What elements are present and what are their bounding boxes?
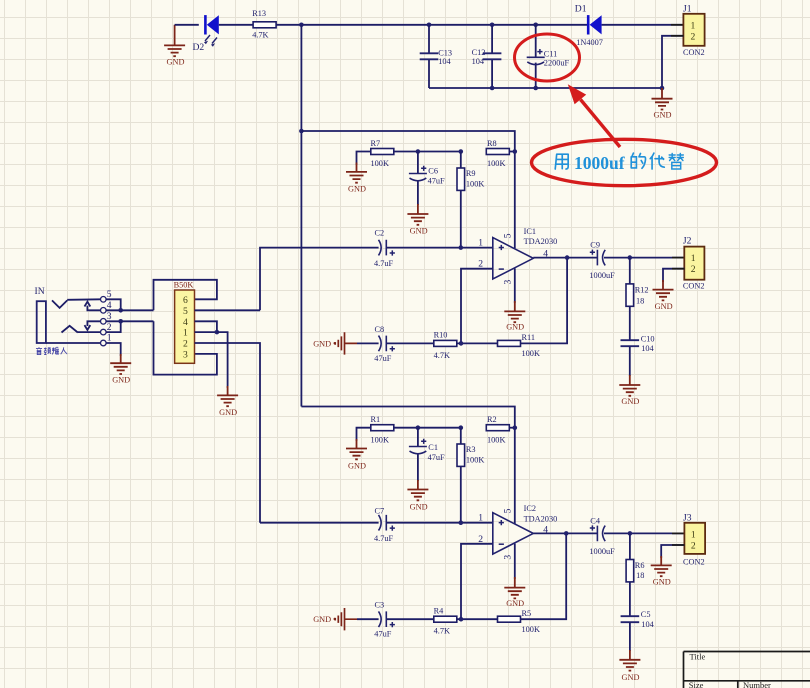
svg-text:C7: C7 xyxy=(375,507,385,516)
svg-text:2: 2 xyxy=(691,31,696,42)
ground GND (J3) xyxy=(651,556,672,587)
ground GND (below C1) xyxy=(407,480,428,512)
ground GND (left of R7) xyxy=(346,152,370,194)
resistor R4 4.7K xyxy=(434,607,457,636)
svg-text:GND: GND xyxy=(219,408,237,417)
capacitor C9 1000uF xyxy=(589,241,615,280)
svg-text:100K: 100K xyxy=(371,435,389,444)
node top rail xyxy=(301,24,588,26)
resistor R12 18 (vertical) xyxy=(626,258,649,307)
capacitor C2 4.7uF xyxy=(374,229,395,268)
wire jack pin3-pin2 tie xyxy=(106,321,121,332)
wire main bus vertical xyxy=(300,25,302,407)
svg-text:GND: GND xyxy=(410,227,428,236)
wire pot wiper up to C2 row xyxy=(260,248,379,311)
wire jack sleeve to ground xyxy=(106,343,121,356)
ground GND (C10) xyxy=(619,375,640,406)
svg-text:1N4007: 1N4007 xyxy=(576,38,603,47)
wire pot pin3 loop xyxy=(154,321,217,374)
svg-text:R6: R6 xyxy=(635,561,645,570)
wire R13 to junction xyxy=(276,24,301,26)
wire R10 to node xyxy=(457,342,499,344)
red ellipse annotation callout xyxy=(532,139,717,185)
svg-text:5: 5 xyxy=(503,233,514,238)
wire pot pin2 to C7 xyxy=(195,343,260,523)
bottom rail wire xyxy=(429,87,662,89)
wire GND to D2 xyxy=(175,24,199,26)
svg-text:CON2: CON2 xyxy=(683,557,705,566)
wire bus to R7 row xyxy=(301,131,514,248)
svg-text:3: 3 xyxy=(503,280,514,285)
svg-text:TDA2030: TDA2030 xyxy=(524,237,558,246)
svg-text:R13: R13 xyxy=(252,9,266,18)
svg-text:100K: 100K xyxy=(487,435,505,444)
ground GND (below J1) xyxy=(652,88,673,119)
wire jack L to pot xyxy=(121,309,154,311)
svg-text:R10: R10 xyxy=(434,331,448,340)
capacitor C3 47uF xyxy=(374,601,395,639)
svg-text:3: 3 xyxy=(503,555,514,560)
svg-text:4.7uF: 4.7uF xyxy=(374,259,394,268)
svg-text:2: 2 xyxy=(691,540,696,551)
wire C3 to R4 xyxy=(386,618,433,620)
svg-text:GND: GND xyxy=(410,503,428,512)
wire C9 to J2 xyxy=(604,257,684,259)
svg-text:1: 1 xyxy=(107,333,112,344)
diode D2 (LED) xyxy=(193,15,219,53)
svg-text:GND: GND xyxy=(348,461,366,470)
svg-text:6: 6 xyxy=(183,295,188,306)
wire R4 to node xyxy=(457,618,499,620)
svg-text:100K: 100K xyxy=(487,159,505,168)
capacitor C11 2200uF xyxy=(527,25,570,88)
capacitor C4 1000uF xyxy=(589,516,615,555)
svg-text:GND: GND xyxy=(313,615,331,624)
svg-text:C3: C3 xyxy=(375,601,385,610)
svg-text:R2: R2 xyxy=(487,415,497,424)
wire pot pin5 to C2 xyxy=(195,309,260,311)
svg-text:Size: Size xyxy=(689,680,704,688)
svg-text:R8: R8 xyxy=(487,139,497,148)
svg-text:R12: R12 xyxy=(635,285,649,294)
svg-text:4.7K: 4.7K xyxy=(434,351,450,360)
svg-text:R5: R5 xyxy=(522,609,532,618)
svg-text:5: 5 xyxy=(107,289,112,300)
svg-text:TDA2030: TDA2030 xyxy=(524,514,558,523)
capacitor C12 xyxy=(472,25,502,88)
svg-text:1000uF: 1000uF xyxy=(589,547,615,556)
resistor R13 xyxy=(252,9,276,40)
ground GND (jack) xyxy=(110,354,131,385)
svg-text:100K: 100K xyxy=(522,625,540,634)
resistor R3 100K (vertical) xyxy=(457,428,484,523)
connector IN (audio jack) xyxy=(35,286,112,346)
svg-text:C8: C8 xyxy=(375,325,385,334)
svg-text:1: 1 xyxy=(183,328,188,339)
svg-text:GND: GND xyxy=(167,58,185,67)
wire R8 to bus xyxy=(509,151,515,153)
label 音频输入 xyxy=(36,347,67,354)
svg-text:4.7K: 4.7K xyxy=(252,30,268,39)
svg-text:R11: R11 xyxy=(522,333,536,342)
wire pot to C7 row xyxy=(260,522,379,524)
resistor R1 100K xyxy=(371,415,394,444)
wire gnd to C8 xyxy=(357,342,379,344)
svg-text:104: 104 xyxy=(641,344,654,353)
ground GND (sideways, C8 input) xyxy=(313,332,357,354)
svg-text:GND: GND xyxy=(112,376,130,385)
ground GND (below C6) xyxy=(407,204,428,236)
svg-text:CON2: CON2 xyxy=(683,281,705,290)
svg-text:C1: C1 xyxy=(428,443,438,452)
svg-text:47uF: 47uF xyxy=(428,453,445,462)
wire J1 pin2 to bottom rail xyxy=(662,36,683,88)
wire R5 up to output xyxy=(520,533,566,619)
svg-text:1: 1 xyxy=(478,238,483,249)
svg-text:C11: C11 xyxy=(544,50,558,59)
svg-text:B50K: B50K xyxy=(174,281,194,290)
wire C10 to ground xyxy=(629,346,631,376)
svg-text:4: 4 xyxy=(107,300,112,311)
resistor R10 4.7K xyxy=(434,331,457,360)
svg-text:C4: C4 xyxy=(590,516,601,525)
resistor R9 100K (vertical) xyxy=(457,152,484,248)
svg-text:R4: R4 xyxy=(434,607,445,616)
svg-text:1: 1 xyxy=(478,513,483,524)
svg-text:1000uf: 1000uf xyxy=(574,153,625,173)
wire IC2 output row xyxy=(533,532,597,534)
red ellipse around C11 xyxy=(515,34,580,81)
diode D1 1N4007 xyxy=(575,4,603,48)
connector J2 CON2 xyxy=(683,236,705,291)
svg-text:J1: J1 xyxy=(683,3,692,14)
svg-text:GND: GND xyxy=(621,397,639,406)
wire jack R to pot xyxy=(121,320,154,322)
svg-text:18: 18 xyxy=(636,297,644,306)
svg-text:47uF: 47uF xyxy=(374,630,391,639)
wire pot pin1 to ground xyxy=(217,332,228,388)
svg-text:GND: GND xyxy=(506,322,524,331)
ground GND (left of R1) xyxy=(346,428,370,471)
svg-text:5: 5 xyxy=(503,508,514,513)
svg-text:C5: C5 xyxy=(641,610,651,619)
resistor R6 18 (vertical) xyxy=(626,533,644,582)
resistor R8 100K xyxy=(486,139,509,168)
svg-text:C12: C12 xyxy=(472,48,486,57)
svg-text:GND: GND xyxy=(655,302,673,311)
svg-text:4.7K: 4.7K xyxy=(434,627,450,636)
svg-text:C6: C6 xyxy=(428,166,438,175)
capacitor C5 104 xyxy=(621,610,655,629)
wire gnd to C3 xyxy=(357,618,379,620)
svg-text:C2: C2 xyxy=(375,229,385,238)
svg-text:GND: GND xyxy=(506,599,524,608)
svg-text:100K: 100K xyxy=(466,456,484,465)
svg-text:1: 1 xyxy=(691,20,696,31)
svg-text:CON2: CON2 xyxy=(683,48,705,57)
potentiometer B50K xyxy=(174,281,195,364)
wire pot pin4-pin1 tie xyxy=(195,321,217,332)
resistor R7 100K xyxy=(371,139,394,168)
wire D1 to J1 xyxy=(602,24,684,26)
svg-text:GND: GND xyxy=(654,110,672,119)
svg-text:GND: GND xyxy=(653,578,671,587)
svg-text:2: 2 xyxy=(183,339,188,350)
connector J1 CON2 xyxy=(683,3,705,57)
wire pot pin6 loop xyxy=(154,280,217,311)
svg-text:J3: J3 xyxy=(683,512,692,523)
svg-text:R3: R3 xyxy=(466,445,476,454)
ground GND (top-left) xyxy=(164,25,185,67)
svg-text:R1: R1 xyxy=(371,415,381,424)
svg-text:3: 3 xyxy=(183,349,188,360)
annotation text 用1000uf 的代替 xyxy=(555,153,683,173)
svg-text:18: 18 xyxy=(636,571,644,580)
svg-text:C10: C10 xyxy=(641,334,655,343)
svg-text:104: 104 xyxy=(472,57,485,66)
ground GND (IC1 pin3) xyxy=(504,269,525,332)
wire jack pin5-pin4 tie xyxy=(106,299,121,310)
svg-text:D1: D1 xyxy=(575,4,587,15)
svg-text:100K: 100K xyxy=(466,180,484,189)
wire IC1 pin2 to feedback xyxy=(461,269,493,344)
capacitor C8 47uF xyxy=(374,325,395,363)
svg-text:1: 1 xyxy=(691,253,696,264)
connector J3 CON2 xyxy=(683,512,705,566)
svg-text:J2: J2 xyxy=(683,236,692,247)
ground GND (IC2 pin3) xyxy=(504,544,525,608)
svg-text:2: 2 xyxy=(107,322,112,333)
resistor R5 100K xyxy=(498,609,540,634)
op-amp IC2 TDA2030 xyxy=(478,504,557,560)
svg-text:4: 4 xyxy=(183,317,188,328)
wire R6 to C5 xyxy=(629,582,631,616)
svg-text:GND: GND xyxy=(348,185,366,194)
svg-text:2: 2 xyxy=(691,264,696,275)
svg-text:Title: Title xyxy=(690,651,706,661)
wire C8 to R10 xyxy=(386,342,433,344)
svg-text:2200uF: 2200uF xyxy=(544,59,570,68)
svg-text:1: 1 xyxy=(691,529,696,540)
svg-text:1000uF: 1000uF xyxy=(589,271,615,280)
capacitor C7 4.7uF xyxy=(374,507,395,543)
wire R7 to C6 node xyxy=(393,151,460,153)
ground GND (J2) xyxy=(653,280,674,311)
wire R1 to C1 node xyxy=(393,427,460,429)
ground GND (pot) xyxy=(217,386,238,417)
svg-text:47uF: 47uF xyxy=(428,177,445,186)
wire C7 to IC2 pin1 xyxy=(386,522,493,524)
svg-text:100K: 100K xyxy=(371,159,389,168)
svg-text:104: 104 xyxy=(641,620,654,629)
capacitor C10 104 xyxy=(621,334,655,353)
svg-text:47uF: 47uF xyxy=(374,354,391,363)
wire J3 pin2 to ground xyxy=(661,545,684,558)
wire C4 to J3 xyxy=(604,532,684,534)
wire J2 pin2 to ground xyxy=(663,269,684,282)
svg-text:GND: GND xyxy=(622,673,640,682)
svg-text:104: 104 xyxy=(438,57,451,66)
wire C5 to ground xyxy=(629,622,631,651)
svg-text:C9: C9 xyxy=(590,241,600,250)
capacitor C13 xyxy=(420,25,452,88)
svg-text:IC2: IC2 xyxy=(524,504,536,513)
ground GND (sideways, C3 input) xyxy=(313,608,357,630)
svg-text:D2: D2 xyxy=(193,42,205,53)
ground GND (C5) xyxy=(619,650,640,682)
red arrow annotation xyxy=(568,84,620,147)
svg-text:4.7uF: 4.7uF xyxy=(374,534,394,543)
wire R2 to bus xyxy=(509,427,515,429)
resistor R2 100K xyxy=(486,415,509,444)
wire R11 up to output xyxy=(520,258,567,344)
wire D2 to R13 xyxy=(219,24,254,26)
wire IC2 pin2 to feedback xyxy=(461,544,493,619)
svg-text:3: 3 xyxy=(107,311,112,322)
wire R12 to C10 xyxy=(629,306,631,340)
svg-text:IC1: IC1 xyxy=(524,227,536,236)
wire C2 to IC1 pin1 xyxy=(386,247,493,249)
wire IC1 output row xyxy=(533,257,597,259)
svg-text:Number: Number xyxy=(743,680,771,688)
svg-text:R9: R9 xyxy=(466,169,476,178)
svg-text:GND: GND xyxy=(313,339,331,348)
svg-text:IN: IN xyxy=(35,286,45,297)
wire bus to R1 row xyxy=(301,407,514,524)
svg-text:R7: R7 xyxy=(371,139,381,148)
resistor R11 100K xyxy=(498,333,540,358)
capacitor C6 47uF xyxy=(409,152,445,206)
svg-text:100K: 100K xyxy=(522,349,540,358)
op-amp IC1 TDA2030 xyxy=(478,227,557,285)
svg-text:5: 5 xyxy=(183,306,188,317)
capacitor C1 47uF xyxy=(409,428,445,481)
